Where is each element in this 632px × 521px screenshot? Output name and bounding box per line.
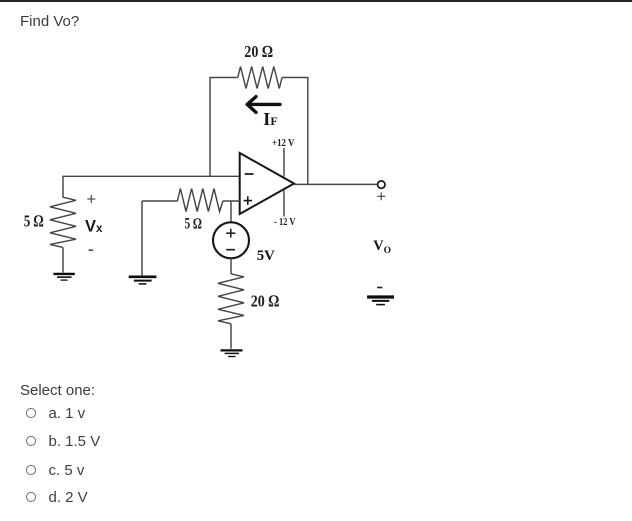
ground G3 [221,350,243,356]
resistor R1 5 ohm (left, vertical zigzag) [50,197,76,247]
svg-text:5V: 5V [257,248,276,264]
wire junction down to source [230,201,232,223]
resistor R2 5 ohm (middle, horizontal zigzag) [177,189,223,212]
svg-text:5 Ω: 5 Ω [24,211,44,230]
op-amp minus sign [245,173,254,175]
wire negative supply [283,191,285,217]
option c radio [26,465,36,475]
wire positive supply [283,148,285,177]
wire source to R3 [230,258,232,274]
wire Vx branch vertical top [62,176,64,198]
option c label [49,463,85,478]
option b label [49,434,101,449]
ground G1 [53,274,74,280]
op-amp plus sign [244,196,252,205]
svg-text:VO: VO [373,238,391,256]
source minus sign [226,249,235,251]
wire feedback left vertical [209,77,211,176]
ground G2 [129,277,157,284]
top border [0,0,632,2]
label minus above output ground [377,287,382,289]
svg-text:- 12 V: - 12 V [274,217,296,228]
op-amp U1 [240,153,294,214]
source plus sign [226,229,235,238]
option a label [49,406,86,421]
wire feedback right vertical [307,77,309,184]
select one text [20,383,95,398]
wire output [294,183,378,185]
wire inverting input [63,175,240,177]
ground output [367,297,394,305]
resistor RF 20 ohm (feedback, horizontal zigzag) [238,67,282,89]
output terminal [378,181,385,188]
voltage source V1 [213,222,249,258]
svg-text:20 Ω: 20 Ω [251,291,279,310]
option b radio [26,436,36,446]
label plus of Vx [87,195,95,203]
wire top rail right [282,77,308,79]
resistor R3 20 ohm (vertical zigzag) [218,274,244,324]
current arrow IF [247,97,280,113]
svg-text:Vx: Vx [85,218,103,236]
svg-text:IF: IF [263,109,277,129]
label plus at output [377,192,385,200]
label minus of Vx [89,249,93,251]
wire R3 to ground [230,324,232,349]
wire below R1 [62,248,64,273]
option a radio [26,408,36,418]
wire middle horizontal [142,200,178,202]
option d label [49,490,88,505]
question text [20,14,79,29]
wire middle vertical [141,201,143,276]
svg-text:+12 V: +12 V [272,138,295,149]
svg-text:20 Ω: 20 Ω [244,42,272,61]
wire to plus input [223,200,240,202]
wire top rail left [210,77,238,79]
option d radio [26,492,36,502]
svg-text:5 Ω: 5 Ω [185,215,202,232]
